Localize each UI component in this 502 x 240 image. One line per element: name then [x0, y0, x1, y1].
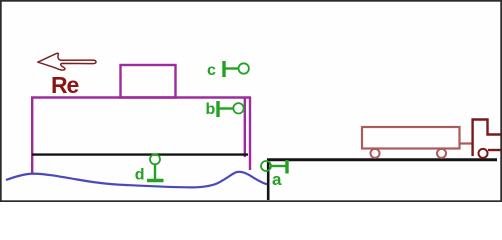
marker a tee — [285, 160, 288, 174]
ship hull right side inner — [244, 97, 246, 157]
arrow Re (block arrow pointing left) — [38, 53, 96, 70]
marker b circle — [233, 103, 243, 113]
marker d circle — [150, 154, 160, 164]
water wave — [6, 172, 267, 188]
truck cab hood bottom — [488, 149, 501, 151]
marker c tee — [222, 61, 225, 77]
svg-text:Re: Re — [51, 72, 79, 98]
ship hull top edge — [31, 96, 251, 98]
quay road line — [267, 158, 497, 161]
ship hull left side — [31, 97, 33, 174]
svg-text:b: b — [206, 101, 216, 118]
svg-text:d: d — [135, 167, 145, 184]
ship hull right side outer — [249, 97, 251, 170]
trailer wheel rear — [371, 149, 380, 158]
truck trailer body — [362, 127, 460, 149]
marker b tee — [216, 101, 219, 117]
marker b line — [218, 107, 233, 109]
truck cab outline — [473, 120, 501, 157]
svg-text:c: c — [207, 62, 216, 79]
marker d tee — [147, 179, 164, 182]
truck cab wheel — [479, 149, 488, 158]
marker a circle — [261, 161, 271, 171]
marker c circle — [239, 63, 249, 73]
trailer wheel front — [437, 149, 446, 158]
svg-text:a: a — [272, 170, 282, 189]
quay wall vertical — [267, 159, 270, 200]
waterline through hull — [32, 153, 248, 155]
marker d line — [154, 164, 156, 180]
marker a line — [271, 165, 286, 167]
trailer drawbar — [460, 142, 473, 144]
marker c line — [224, 67, 239, 69]
wheelhouse — [121, 65, 176, 98]
